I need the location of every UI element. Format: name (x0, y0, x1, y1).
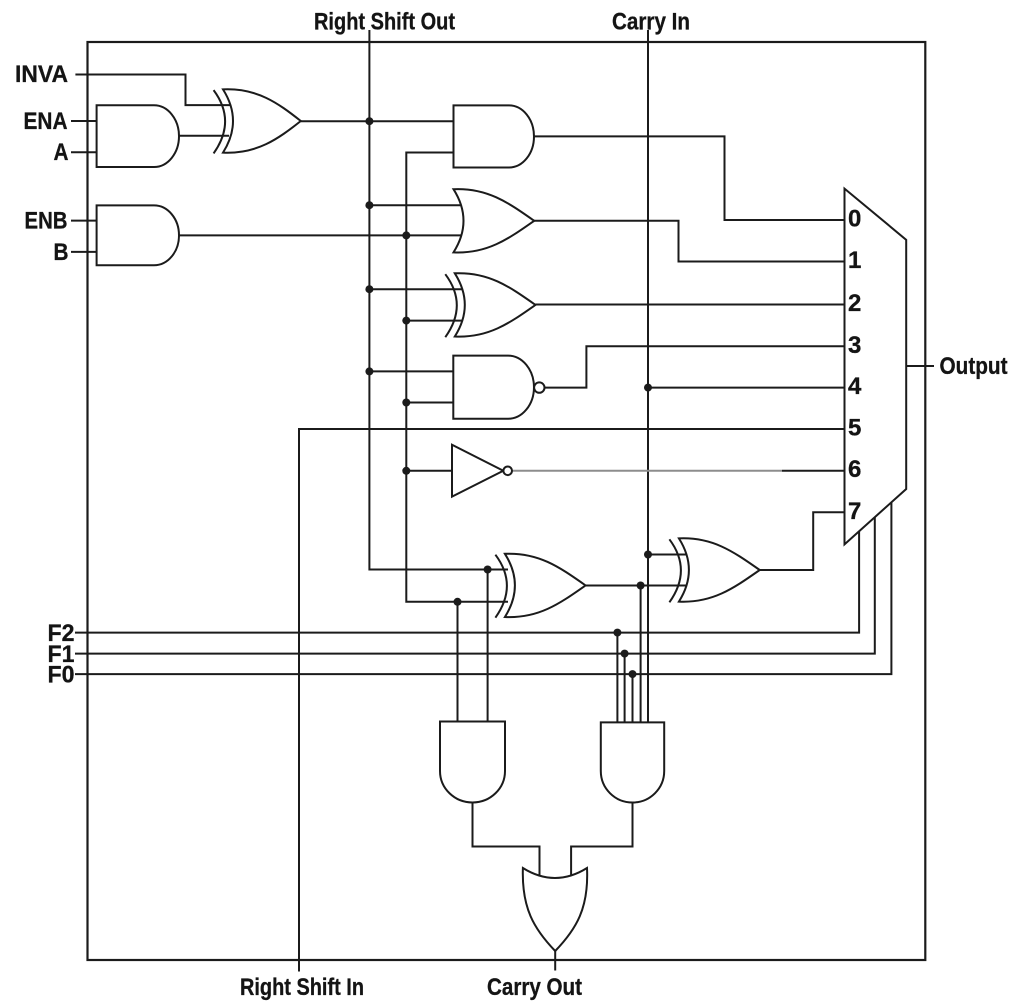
inverter U8 triangle (452, 445, 503, 497)
wire ENA input (71, 120, 97, 122)
xor-gate U10 front arc (669, 539, 681, 602)
svg-text:0: 0 (848, 206, 861, 233)
junction B bus / NAND in2 (402, 399, 410, 407)
junction F0 / AND5 branch (629, 670, 637, 678)
inverter U8 bubble (503, 467, 512, 476)
svg-text:A: A (54, 139, 69, 166)
xor-gate U3 (input XOR) body (223, 89, 301, 152)
wire Carry In to mux input 4 (648, 387, 845, 389)
wire F2 branch down to AND5 (616, 633, 618, 723)
or-gate U5 (A OR B) (454, 189, 535, 252)
svg-text:1: 1 (848, 247, 861, 274)
node Carry In : vertical line (647, 30, 649, 722)
junction A line / AND4 branch (484, 566, 492, 574)
wire ENB input (71, 220, 97, 222)
and-gate U1 (ENA,A) (97, 105, 179, 167)
wire OR1 input 1 from A bus (369, 204, 462, 206)
xor-gate U10 (carry) body (679, 538, 760, 601)
svg-text:INVA: INVA (15, 61, 68, 88)
xor-gate U6 (A XOR B) body (455, 273, 536, 336)
wire INVA input (75, 75, 230, 106)
wire XOR1 output (A signal) to AND3 (301, 120, 454, 122)
svg-text:ENA: ENA (24, 108, 68, 135)
xor-gate U3 front arc (214, 90, 226, 153)
junction Carry In / XOR4 (644, 551, 652, 559)
wire B input (71, 251, 97, 253)
svg-text:5: 5 (848, 415, 861, 442)
nand-gate U7 bubble (534, 382, 544, 392)
wire inverter input from B bus (406, 470, 452, 472)
svg-text:Carry Out: Carry Out (487, 974, 582, 1001)
or-gate U13 (carry out) (523, 868, 587, 951)
svg-text:Carry In: Carry In (612, 9, 690, 36)
wire OR2 output Carry Out (554, 948, 556, 971)
wire AND2 output (B signal) to OR1 (178, 234, 462, 236)
svg-text:ENB: ENB (25, 208, 68, 235)
multiplexer MUX (845, 189, 907, 545)
and-gate U2 (ENB,B) (97, 205, 179, 265)
junction A bus / XOR2 in (365, 285, 373, 293)
svg-text:B: B (54, 239, 69, 266)
wire AND3 output to mux input 0 (534, 136, 845, 220)
wire AND5 output to OR2 (571, 803, 632, 878)
junction B line / AND4 branch (454, 598, 462, 606)
wire sum branch down to AND5 (640, 586, 642, 723)
svg-text:6: 6 (848, 456, 861, 483)
node Right Shift Out : vertical bus (A bus) (369, 30, 508, 570)
and-gate U12 (bottom right, 5 inputs) (601, 722, 664, 802)
and-gate U11 (bottom left, 2 inputs) (440, 722, 505, 803)
wire AND4 output to OR2 (473, 803, 540, 878)
wire AND1 output to XOR1 (178, 135, 229, 137)
node B bus vertical (406, 153, 508, 602)
wire A signal branch down to AND4 (487, 570, 489, 722)
junction F1 / AND5 branch (621, 650, 629, 658)
junction sum line / AND5 branch (637, 582, 645, 590)
junction Carry In / mux4 (644, 384, 652, 392)
wire NAND output to mux input 3 (545, 346, 845, 387)
svg-text:4: 4 (848, 373, 862, 400)
wire F0 branch down to AND5 (632, 674, 634, 722)
wire A input (71, 151, 97, 153)
svg-text:3: 3 (848, 332, 861, 359)
svg-text:Right Shift Out: Right Shift Out (314, 9, 455, 36)
nand-gate U7 body (453, 356, 534, 419)
junction A bus / OR1 in (365, 201, 373, 209)
xor-gate U6 front arc (445, 274, 457, 337)
wire XOR4 output to mux input 7 (760, 512, 845, 570)
wire XOR2 input 2 from B bus (406, 320, 463, 322)
xor-gate U9 (sum) body (505, 554, 586, 617)
wire XOR2 input 1 from A bus (369, 288, 463, 290)
svg-text:F0: F0 (48, 662, 75, 689)
svg-text:Right Shift In: Right Shift In (240, 974, 364, 1001)
wire F0 input to mux select (75, 502, 891, 674)
junction A bus / NAND in (365, 367, 373, 375)
outer border (88, 42, 926, 960)
wire XOR2 output to mux input 2 (536, 304, 845, 306)
wire F2 input to mux select (75, 531, 859, 632)
svg-text:Output: Output (940, 353, 1008, 380)
svg-text:2: 2 (848, 290, 861, 317)
xor-gate U9 front arc (495, 555, 507, 618)
wire F1 branch down to AND5 (624, 654, 626, 723)
wire mux output (906, 365, 934, 367)
wire F1 input to mux select (75, 517, 875, 653)
node Right Shift In : vertical line (299, 429, 845, 972)
svg-text:7: 7 (848, 498, 861, 525)
wire B signal branch down to AND4 (457, 602, 459, 722)
junction B bus / AND2 out (402, 231, 410, 239)
junction B bus / inverter in (402, 467, 410, 475)
wire OR1 output to mux input 1 (534, 221, 844, 262)
and-gate U4 (A AND B) (454, 105, 534, 167)
wire inverter output to mux input 6 (black segment) (782, 470, 845, 472)
wire NAND input 1 from A bus (369, 370, 453, 372)
wire XOR3 output to XOR4 input 2 (586, 585, 687, 587)
wire Carry In to XOR4 input 1 (648, 554, 687, 556)
junction A bus / XOR1 out (365, 117, 373, 125)
wire NAND input 2 from B bus (406, 402, 453, 404)
junction B bus / XOR2 in2 (402, 317, 410, 325)
wire inverter output to mux input 6 (gray segment) (512, 470, 782, 472)
junction F2 / AND5 branch (613, 629, 621, 637)
